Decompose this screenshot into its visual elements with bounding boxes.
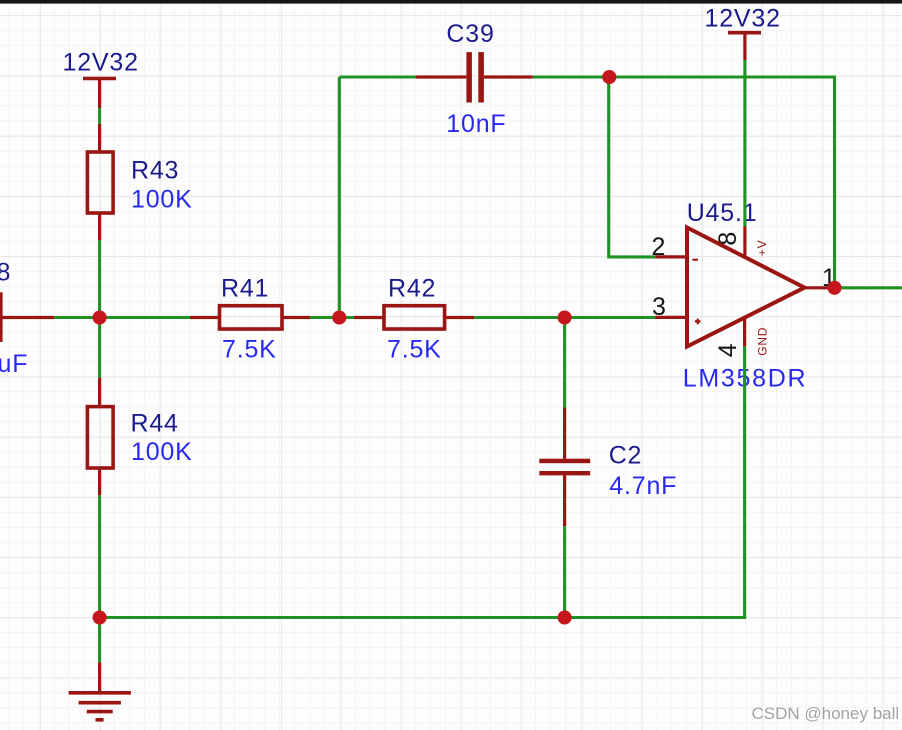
svg-text:4: 4: [714, 343, 742, 358]
svg-text:R42: R42: [388, 274, 436, 302]
svg-text:U45.1: U45.1: [687, 199, 758, 227]
svg-text:R44: R44: [131, 409, 179, 437]
svg-text:+V: +V: [755, 240, 769, 257]
svg-text:7.5K: 7.5K: [387, 335, 442, 363]
svg-text:C39: C39: [446, 20, 494, 48]
svg-text:C2: C2: [609, 441, 643, 469]
svg-text:100K: 100K: [131, 185, 193, 213]
svg-text:100K: 100K: [131, 438, 193, 466]
svg-text:uF: uF: [0, 350, 28, 378]
svg-text:8: 8: [0, 258, 11, 286]
svg-text:12V32: 12V32: [63, 49, 139, 77]
svg-text:10nF: 10nF: [446, 110, 506, 138]
svg-text:7.5K: 7.5K: [222, 335, 277, 363]
svg-text:R43: R43: [131, 157, 179, 185]
svg-text:12V32: 12V32: [705, 5, 781, 33]
svg-text:CSDN @honey ball: CSDN @honey ball: [752, 704, 900, 723]
svg-text:GND: GND: [755, 327, 769, 356]
svg-text:R41: R41: [221, 274, 269, 302]
svg-text:4.7nF: 4.7nF: [609, 472, 677, 500]
